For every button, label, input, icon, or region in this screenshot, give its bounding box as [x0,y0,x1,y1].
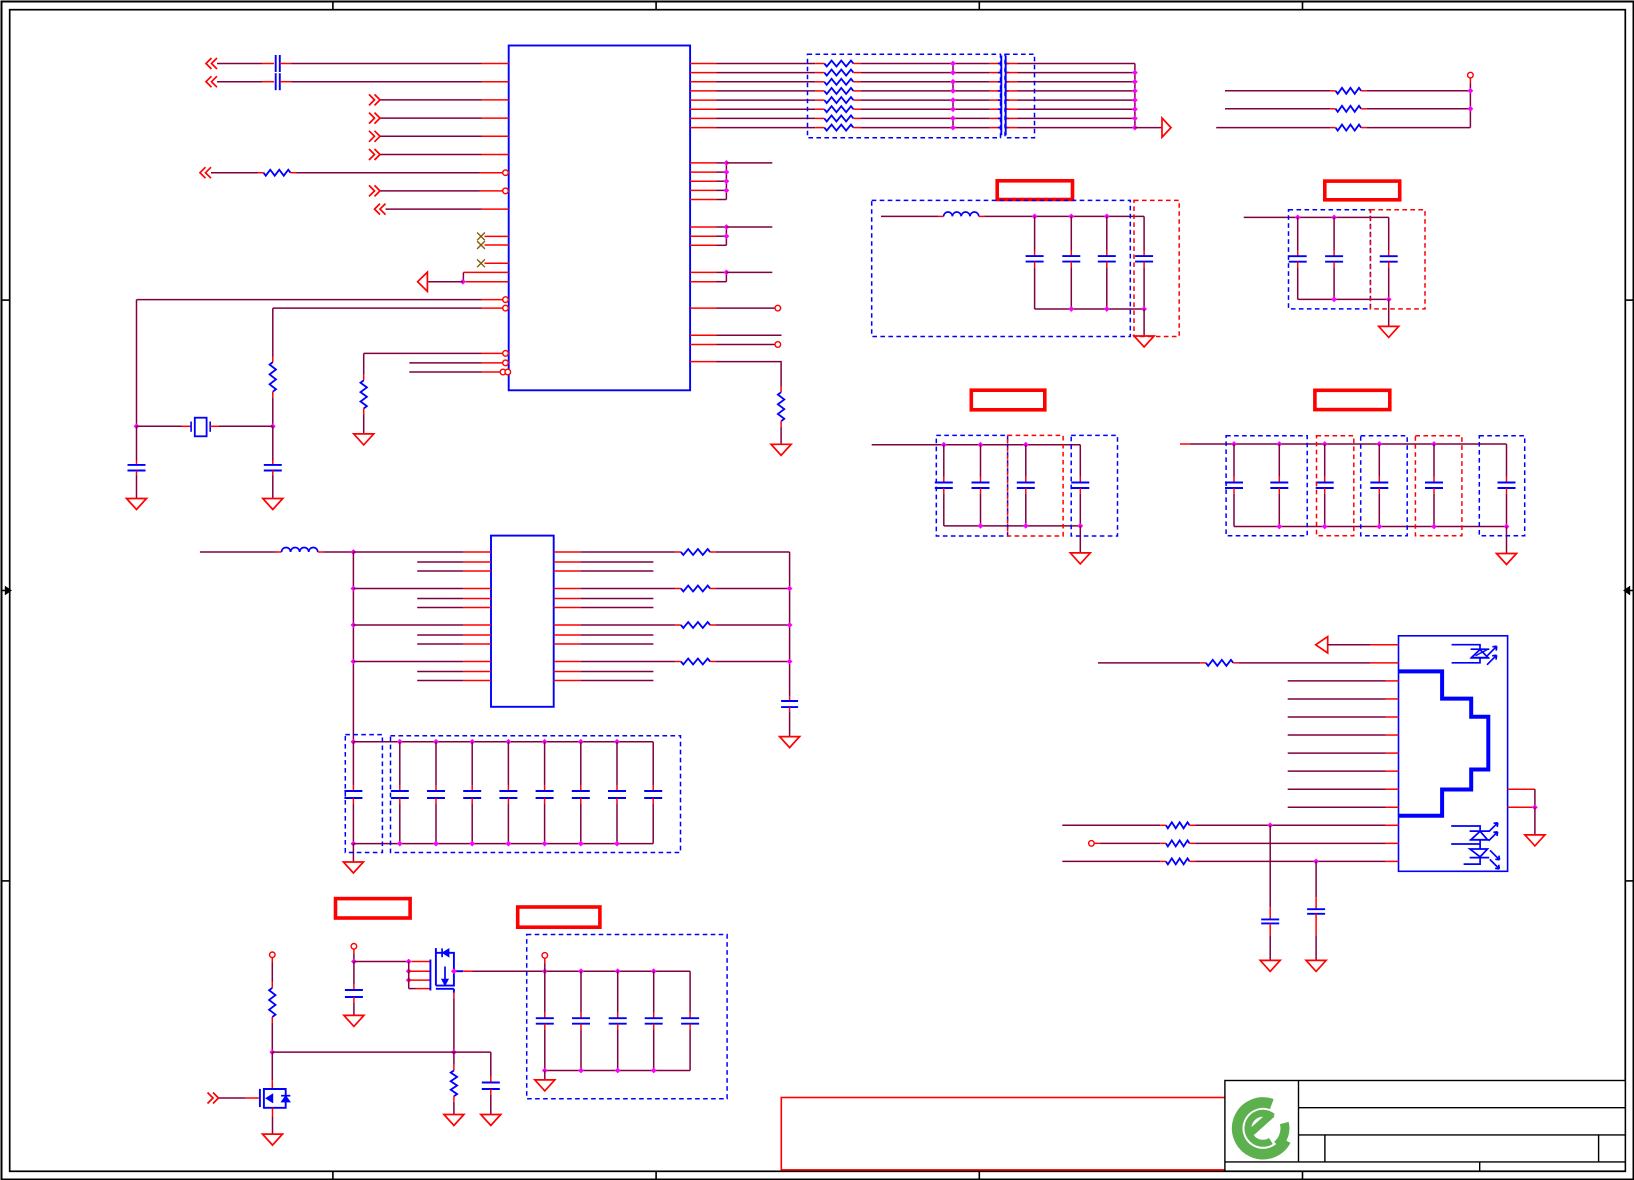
pin stub bank cap top [580,785,582,791]
pin stub cap top PF4 [1278,477,1280,483]
pin stub R3 bottom [363,409,365,415]
wire qbank cap drop [544,971,546,1012]
pin circle U1 row8 [503,188,509,194]
pin stub R2x right [1190,824,1196,826]
pin stub U1 right row3 [690,81,716,83]
terminal circle VCCIN [270,952,276,958]
wire right bus vertical [1134,64,1136,128]
pin stub U1 right row8 [690,127,716,129]
label box VCC2 [971,390,1045,410]
wire PWREN [219,1097,245,1099]
pin stub U2 left [463,680,491,682]
terminal circle LED0 [775,305,781,311]
pin stub U2 right [554,607,581,609]
wire far-right bus [1469,84,1471,128]
wire group stub [726,226,772,228]
pin stub U1 row3 [482,99,509,101]
pin stub U1 row334 [690,334,716,336]
pin stub U1 right row2 [690,72,716,74]
junction [724,233,730,239]
wire U2 stub left [417,598,463,600]
pin stub J1 row7 [1386,752,1399,754]
pin stub U2 left [463,607,491,609]
terminal circle row12 [1089,841,1095,847]
label box PWR1 [336,899,411,918]
junction [950,61,956,67]
label box VCC3 [1325,181,1400,200]
junction [578,739,584,745]
title block logo cell divider [1298,1081,1300,1162]
wire TD5 a [717,99,816,101]
wire group stub [726,271,772,273]
capacitor C bank [427,791,445,798]
pin stub U1 row371 [482,371,501,373]
junction [1276,524,1282,530]
pin stub qbank bottom [580,1024,582,1030]
resistor R2x [1166,858,1190,864]
sheet border left ticks [2,300,10,881]
pin stub C-array left row5 [990,99,1001,101]
pin stub J1 row11 [1386,824,1399,826]
pin stub R4 right [853,63,861,65]
wire group [717,199,727,201]
wire cap to bus PF1 [1034,267,1036,309]
pin stub C out bottom [789,707,791,711]
pin stub U1 row4 [482,117,509,119]
pin circle U1 MDIO [503,360,509,366]
wire PF1 top bus [984,215,1144,217]
pin stub U2 left [463,570,491,572]
wire U2 stub right [581,643,654,645]
wire U2 stub right [581,570,654,572]
wire TD7 c [1018,117,1135,119]
wire cap drop PF3 [1388,217,1390,250]
dashed box PF4 [1226,436,1307,536]
wire LED row [1328,644,1371,646]
pin stub U1 row TXER [466,281,509,283]
cap plate tick left row2 [998,72,1001,74]
wire R3 to ground [363,414,365,434]
dashed box PF1 [1134,200,1179,336]
wire cap drop PF3 [1333,217,1335,250]
wire MDC horizontal [364,352,482,354]
pin stub Q1 g3 [409,979,431,981]
cap plate tick left row5 [998,99,1001,101]
wire U2 stub right [581,634,654,636]
wire group vertical [725,227,727,245]
capacitor C out [781,701,798,707]
dashed box PF3 [1289,210,1371,309]
label box PWR2 [518,907,600,927]
pin stub cap top PF3 [1297,251,1299,257]
wire row11 b [1195,824,1385,826]
junction [614,739,620,745]
pin stub U1 right [690,271,716,273]
wire TD8 c [1018,127,1135,129]
wire qbank to bus [544,1029,546,1070]
pin circle U1 row7 [503,170,509,176]
pin stub cap top PF2 [980,477,982,483]
junction [950,116,956,122]
junction [351,659,357,665]
wire R out to bus [716,624,790,626]
pin stub U2 left [463,588,491,590]
pin stub cap top PF2 [943,477,945,483]
wire vertical join TX pins [462,272,464,281]
wire bank cap drop [652,742,654,786]
wire TD6 b [861,108,990,110]
pin stub C-array left row2 [990,72,1001,74]
resistor R10 [824,115,853,121]
wire group stub [726,162,772,164]
pin stub row12 circle [1094,842,1100,844]
junction [724,178,730,184]
wire cap to bus PF1 [1070,267,1072,309]
pin stub red C1 left [262,63,274,65]
resistor R15 [1336,125,1362,131]
port arrow triangle TX [418,272,428,291]
junction [787,622,793,628]
pin stub U1 row1 [482,63,509,65]
dashed box PF1 [872,200,1131,336]
pin stub R15 right [1361,127,1367,129]
wire row2 b [1239,662,1371,664]
wire cap drop PF2 [943,445,945,477]
wire cap to bus PF1 [1143,267,1145,309]
wire J1 row10 [1288,806,1386,808]
wire row334 [717,334,782,336]
dashed box PF4 [1479,436,1524,536]
pin stub C7 bottom [490,1089,492,1095]
pin stub qbank bottom [544,1024,546,1030]
wire group [717,244,727,246]
wire cap to bus PF1 [1106,267,1108,309]
wire cap to bus PF4 [1278,494,1280,527]
wire cap drop PF4 [1433,444,1435,477]
wire R12 to ground [780,427,782,445]
pin stub U1 right [690,281,716,283]
wire cap drop PF2 [1079,445,1081,477]
pin stub red C2 right [280,81,292,83]
pin stub R out right [710,661,716,663]
pin stub R8 right [853,99,861,101]
pin stub J1 row1 [1371,644,1399,646]
wire single cap drop [352,742,354,786]
pin stub U1 right row1 [690,63,716,65]
pin stub U1 MDIO [482,362,503,364]
wire group [717,189,727,191]
junction [1023,442,1029,448]
wire pair link [952,82,954,91]
wire U2 out row [581,588,676,590]
wire bank cap drop [544,742,546,786]
port arrow net L5 [369,131,380,142]
wire R1 to U1 [296,172,479,174]
pin stub cap bot PF2 [980,488,982,494]
pin stub cap top PF1 [1034,251,1036,257]
pin stub cap top PF2 [1079,477,1081,483]
pin stub U1 right row4 [690,90,716,92]
pin stub bank cap top [435,785,437,791]
ground [1070,553,1090,564]
capacitor C PF2 [1017,483,1035,489]
port arrow net PWREN [208,1093,219,1104]
title block col divider c [1479,1162,1481,1171]
pin stub VBUS [1469,78,1471,84]
wire TD6 a [717,108,816,110]
pin stub bank cap top [399,785,401,791]
wire C1 to U1 [292,63,482,65]
pin stub U1 right row5 [690,99,716,101]
wire L2 feed [200,551,276,553]
wire VOUT bus [473,970,691,972]
LED D1 inside J1 [1452,645,1497,665]
capacitor C2 series [276,73,280,90]
wire cap drop PF3 [1297,217,1299,250]
resistor R8 [824,97,853,103]
pin stub R out right [710,624,716,626]
title block col divider a [1324,1135,1326,1162]
pin stub U1 right [690,235,716,237]
pin stub R8 left [815,99,824,101]
wire VOUT circle [544,964,546,972]
dashed box cap array [1005,54,1035,138]
wire PF3 top bus [1244,216,1389,218]
junction [950,106,956,112]
wire cap drop PF1 [1106,216,1108,250]
dashed box single cap [345,735,382,853]
pin stub cap top PF4 [1378,477,1380,483]
wire bank cap drop [616,742,618,786]
resistor R11 [824,125,853,131]
wire row13 a [1062,860,1160,862]
port arrow triangle right [1162,118,1171,137]
pin stub bank cap bottom [616,798,618,804]
capacitor C-array plate right [1005,56,1007,136]
wire C7 drop [490,1052,492,1077]
pin stub J1 row13 [1386,860,1399,862]
wire cap to bus PF2 [1079,494,1081,526]
wire U2 stub right [581,671,654,673]
ground [1497,554,1517,565]
pin stub Q2 gate [245,1097,259,1099]
wire U2 stub right [581,680,654,682]
sheet border bottom ticks [333,1171,1303,1179]
wire U2 feed row [353,588,463,590]
terminal circle VIN5 [351,944,357,950]
wire cap drop PF4 [1506,444,1508,477]
capacitor C-array plate left [1000,56,1002,136]
wire shield ground stem [1534,807,1536,835]
pin stub U2 left [463,598,491,600]
ground [780,737,800,748]
port arrow net XI2 [206,76,217,87]
wire crystal left lead [137,425,182,427]
pin stub bank cap top [507,785,509,791]
wire TD6 c [1018,108,1135,110]
pin stub L left PF1 [938,215,944,217]
pin stub Q2 drain [271,1080,273,1089]
junction [134,423,140,429]
wire FR2 b [1367,108,1471,110]
pin stub qbank top [544,1013,546,1019]
pin stub cap top PF2 [1025,477,1027,483]
wire to R16 [271,963,273,983]
junction [1132,88,1138,94]
pin stub R17 bottom [453,1096,455,1102]
resistor R5 [824,70,853,76]
wire U2 stub left [417,634,463,636]
wire qbank to bus [617,1029,619,1070]
wire J1 row5 [1288,716,1386,718]
ground [1306,960,1326,971]
ground [444,1115,464,1126]
wire node to Q2 drain [271,1052,273,1080]
wire TD1 b [861,63,990,65]
title block row divider 3 [1225,1161,1625,1163]
resistor R out [681,622,710,628]
junction [397,739,403,745]
pin stub U1 RBIAS [690,361,716,363]
wire TD3 a [717,81,816,83]
pin stub U1 row5 [482,135,509,137]
pin circle U1 row371 b [505,369,511,375]
capacitor C bank [572,791,590,798]
wire group [717,281,727,283]
junction [406,977,412,983]
wire C6 drop [353,962,355,985]
wire shield vertical [1534,789,1536,807]
capacitor C PF2 [935,483,953,489]
pin stub cap top PF3 [1333,251,1335,257]
wire C2 to U1 [292,81,482,83]
junction [1132,79,1138,85]
capacitor C bank [463,791,481,798]
pin stub R2 top [272,357,274,363]
pin stub cap top PF4 [1506,477,1508,483]
junction [506,841,512,847]
wire C3 top [136,426,138,460]
wire U2 out row [581,661,676,663]
junction [1313,859,1319,865]
junction [469,841,475,847]
wire cap drop PF1 [1070,216,1072,250]
pin stub U2 right [554,598,581,600]
resistor R17 [451,1071,457,1097]
wire VIN bus vertical [352,552,354,742]
wire bottom node horizontal [272,1051,491,1053]
pin stub C5 bottom [352,798,354,804]
junction [406,959,412,965]
wire cap to bus PF4 [1378,494,1380,527]
junction [724,160,730,166]
pin stub PF4 in [1180,443,1191,445]
wire bus to arrow [1135,127,1162,129]
pin stub C-array left row4 [990,90,1001,92]
wire TD3 b [861,81,990,83]
pin stub cap bot PF4 [1433,488,1435,494]
pin stub R14 right [1361,108,1367,110]
wire cap drop PF2 [980,445,982,477]
pin stub C-array right row7 [1006,117,1017,119]
pin stub U2 right [554,561,581,563]
sheet border left center arrow [2,587,11,594]
pin stub C-array left row6 [990,108,1001,110]
pin stub cap bot PF2 [1079,488,1081,494]
pin stub U2 right [554,661,581,663]
resistor R12 [778,392,784,421]
junction [1267,822,1273,828]
pin stub qbank top [689,1013,691,1019]
pin stub U2 left [463,551,491,553]
pin stub U2 left [463,624,491,626]
wire cap to bus PF4 [1506,494,1508,527]
wire PF3 bottom bus [1298,298,1389,300]
pin stub C5 top [352,785,354,791]
pin stub R3 top [363,375,365,381]
pin stub R21 right [1190,842,1196,844]
capacitor C1 series [276,55,280,72]
pin stub J1 row2 [1371,662,1399,664]
dashed box resistor pack [808,54,1001,138]
pin stub qbank bottom [689,1024,691,1030]
wire TD3 c [1018,81,1135,83]
IC U1 main controller [509,46,690,391]
wire bank cap drop [435,742,437,786]
pin stub VOUT circle [544,958,546,963]
junction [724,188,730,194]
pin stub C-array right row1 [1006,63,1017,65]
wire row371 [409,371,481,373]
junction [1504,524,1510,530]
pin stub C6 bottom [353,997,355,1003]
wire RST left [211,172,258,174]
wire FR2 a [1225,108,1330,110]
capacitor C qbank [681,1018,699,1024]
wire cap to bus PF4 [1324,494,1326,527]
pin stub cap bot PF2 [1025,488,1027,494]
wire group [717,180,727,182]
capacitor C PF1 [1062,256,1080,262]
cap plate tick left row1 [998,63,1001,65]
capacitor C3 [128,465,146,471]
junction [433,841,439,847]
capacitor C PF4 [1270,483,1288,489]
pin stub U2 right [554,588,581,590]
capacitor C6 [345,990,363,997]
pin stub bank cap bottom [435,798,437,804]
resistor R9 [824,106,853,112]
port arrow net L6 [369,149,380,160]
wire group [717,226,727,228]
dashed box PF3 [1370,210,1425,309]
wire INT [381,190,480,192]
port arrow net RST [200,167,211,178]
wire C8 drop [1269,825,1271,907]
capacitor C PF1 [1026,256,1044,262]
wire pair link [952,118,954,127]
wire J1 row4 [1288,698,1386,700]
junction [542,841,548,847]
pin stub U1 right [690,226,716,228]
pin stub R20 left [1200,662,1206,664]
junction [950,125,956,131]
wire TD5 b [861,99,990,101]
crystal Y1 [191,418,210,437]
wire qbank cap drop [580,971,582,1012]
pin stub C8 bottom [1269,923,1271,935]
junction [542,968,548,974]
